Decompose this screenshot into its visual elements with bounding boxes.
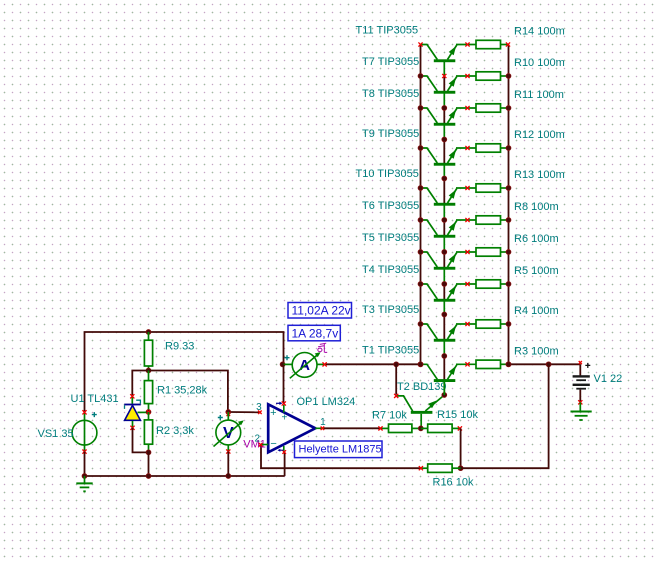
resistor R12 100m: [476, 144, 508, 152]
ammeter AM1: [283, 352, 326, 378]
label T9 TIP3055: [362, 128, 419, 140]
resistor R3 100m: [476, 360, 508, 368]
wire voltmeter plus node to op-amp pin3: [228, 411, 260, 413]
junction right rail row 9: [506, 322, 511, 327]
label T2 BD139: [397, 381, 447, 393]
svg-text:OP1 LM324: OP1 LM324: [297, 396, 356, 408]
label R14 100m: [514, 26, 565, 38]
pin marker op-amp noninverting: [258, 411, 262, 415]
wire ammeter node to op-amp V+: [283, 364, 285, 403]
svg-text:R12 100m: R12 100m: [514, 129, 565, 141]
junction R3 right: [506, 362, 511, 367]
junction left rail row 6: [418, 218, 423, 223]
pin marker emitter T10: [465, 186, 469, 190]
label op-amp V+ arrow: [276, 402, 282, 405]
svg-text:T5 TIP3055: T5 TIP3055: [362, 232, 419, 244]
junction left rail row 4: [418, 146, 423, 151]
junction R16 right: [458, 466, 463, 471]
resistor R13 100m: [476, 184, 508, 192]
pin marker R15 right: [458, 426, 462, 430]
junction feedback riser: [546, 362, 551, 367]
wire R3 to battery: [508, 363, 580, 365]
svg-text:T10 TIP3055: T10 TIP3055: [356, 168, 419, 180]
label R4 100m: [514, 305, 559, 317]
svg-text:T7 TIP3055: T7 TIP3055: [362, 56, 419, 68]
label pin 3: [256, 402, 262, 413]
pin marker op-amp inverting: [259, 443, 263, 447]
label voltmeter plus sign: [218, 415, 223, 420]
svg-text:R16 10k: R16 10k: [433, 477, 474, 489]
label OP1 LM324: [297, 396, 356, 408]
wire feedback riser to battery node: [461, 364, 549, 468]
pin marker R16 left: [419, 466, 423, 470]
svg-text:T11 TIP3055: T11 TIP3055: [356, 25, 419, 37]
node T1 base / T2 emitter: [442, 393, 447, 398]
junction R1 R2 divider: [146, 410, 151, 415]
svg-text:T4 TIP3055: T4 TIP3055: [362, 264, 419, 276]
label R8 100m: [514, 201, 559, 213]
junction base line: [442, 312, 447, 317]
label current arrow annotation: [318, 343, 327, 352]
junction R9 top: [146, 330, 151, 335]
label R16 10k: [433, 477, 474, 489]
svg-text:R9 33: R9 33: [165, 341, 194, 353]
wire left collector rail: [420, 45, 422, 365]
label VM1: [243, 439, 266, 451]
pin marker emitter T5: [465, 250, 469, 254]
label T3 TIP3055: [362, 304, 419, 316]
label ammeter plus sign: [285, 355, 290, 360]
pin marker voltmeter bottom: [226, 449, 230, 453]
svg-text:11,02A 22v: 11,02A 22v: [292, 304, 351, 318]
wire VS1 to ground: [84, 452, 86, 476]
resistor R7 10k: [382, 424, 421, 432]
junction right rail row 6: [506, 218, 511, 223]
pin marker emitter T6: [465, 218, 469, 222]
junction T1 collector: [418, 362, 423, 367]
junction right rail row 10: [506, 362, 511, 367]
pin marker VS1 minus: [82, 450, 86, 454]
pin marker battery bottom: [578, 400, 582, 404]
pin marker resistor rail top: [506, 42, 510, 46]
resistor R15 10k: [421, 424, 461, 432]
resistor R4 100m: [476, 320, 508, 328]
resistor R11 100m: [476, 104, 508, 112]
label box 1A 28,7v: [288, 325, 340, 341]
transistor T8 TIP3055: [421, 108, 476, 126]
pin marker collector rail top: [418, 42, 422, 46]
junction base line: [442, 354, 447, 359]
junction left rail row 7: [418, 250, 423, 255]
transistor T3 TIP3055: [421, 324, 476, 342]
junction base line: [442, 106, 447, 111]
ground V1: [571, 402, 592, 420]
pin marker op-amp out: [321, 427, 325, 431]
resistor R6 100m: [476, 248, 508, 256]
wire ammeter output to T1 node: [326, 363, 421, 365]
resistor R9 33: [144, 332, 152, 371]
label T6 TIP3055: [362, 200, 419, 212]
pin marker emitter T3: [465, 322, 469, 326]
svg-text:R10 100m: R10 100m: [514, 57, 565, 69]
label T7 TIP3055: [362, 56, 419, 68]
svg-text:1: 1: [320, 417, 326, 428]
svg-text:Helyette LM1875: Helyette LM1875: [299, 444, 382, 456]
pin marker TL431 anode: [130, 426, 134, 430]
junction right rail row 8: [506, 282, 511, 287]
svg-text:V1 22: V1 22: [594, 373, 623, 385]
junction voltmeter top: [226, 410, 231, 417]
label VS1 plus sign: [92, 412, 97, 417]
resistor R1 35,28k: [144, 371, 152, 413]
voltmeter VM1: [214, 412, 244, 452]
svg-text:−: −: [270, 438, 276, 450]
label R11 100m: [514, 89, 564, 101]
wire ground rail to op-amp V-: [284, 453, 286, 476]
junction right rail row 4: [506, 146, 511, 151]
label R10 100m: [514, 57, 565, 69]
svg-text:+: +: [270, 407, 276, 419]
svg-text:T3 TIP3055: T3 TIP3055: [362, 304, 419, 316]
transistor T10 TIP3055: [421, 188, 476, 206]
svg-text:R15 10k: R15 10k: [437, 409, 478, 421]
pin marker base T11: [442, 74, 446, 78]
transistor T9 TIP3055: [421, 148, 476, 166]
junction R7 R15 T2 base: [418, 426, 423, 431]
transistor T5 TIP3055: [421, 252, 476, 270]
junction ammeter input: [280, 362, 285, 367]
label R7 10k: [372, 409, 407, 421]
pin marker emitter T11: [465, 42, 469, 46]
junction left rail row 9: [418, 322, 423, 327]
battery V1 22: [573, 364, 590, 402]
wire reference node: [132, 371, 148, 396]
label T1 TIP3055: [362, 344, 419, 356]
svg-text:VS1 35: VS1 35: [38, 428, 74, 440]
resistor R16 10k: [421, 464, 461, 472]
junction base line: [442, 176, 447, 181]
junction left rail row 2: [418, 74, 423, 79]
label R3 100m: [514, 345, 559, 357]
wire R15 to R16 node: [460, 428, 462, 468]
svg-text:T1 TIP3055: T1 TIP3055: [362, 344, 419, 356]
junction R9 bottom: [146, 368, 151, 373]
junction right rail row 2: [506, 74, 511, 79]
label T11 TIP3055: [356, 25, 419, 37]
label R15 10k: [437, 409, 478, 421]
voltage source VS1 35: [72, 412, 97, 451]
svg-text:2: 2: [255, 434, 261, 445]
op-amp OP1 LM324: [261, 404, 325, 452]
junction right rail row 5: [506, 186, 511, 191]
svg-text:T8 TIP3055: T8 TIP3055: [362, 88, 419, 100]
label pin 2: [255, 434, 261, 445]
wire right emitter rail: [508, 45, 510, 365]
wire inverting input feedback: [261, 445, 421, 469]
wire TL431 anode to R2 bottom: [133, 428, 147, 453]
junction ground voltmeter: [226, 474, 231, 479]
junction ground divider: [146, 474, 151, 479]
pin marker TL431 cathode: [130, 394, 134, 398]
label VS1 35: [38, 428, 74, 440]
pin marker T2 collector: [394, 394, 398, 398]
svg-text:R14 100m: R14 100m: [514, 26, 565, 38]
transistor T1 TIP3055: [421, 364, 476, 382]
svg-text:R13 100m: R13 100m: [514, 169, 565, 181]
label op-amp V- arrow: [278, 449, 284, 452]
svg-text:R11 100m: R11 100m: [514, 89, 564, 101]
pin marker ammeter output: [323, 362, 327, 366]
label box 11,02A 22v: [288, 303, 352, 319]
resistor R14 100m: [476, 40, 508, 48]
svg-text:R8 100m: R8 100m: [514, 201, 559, 213]
pin marker emitter T9: [465, 146, 469, 150]
svg-text:T2 BD139: T2 BD139: [397, 381, 447, 393]
wire top rail VS1 to ammeter: [85, 332, 284, 411]
transistor T4 TIP3055: [421, 284, 476, 302]
op-amp U1 TL431: [124, 396, 146, 428]
transistor T7 TIP3055: [421, 76, 476, 94]
junction left rail row 8: [418, 282, 423, 287]
junction base line: [442, 250, 447, 255]
svg-text:R3 100m: R3 100m: [514, 345, 559, 357]
wire op-amp output to R7: [324, 427, 382, 429]
pin marker R7 left: [378, 426, 382, 430]
junction base line: [442, 218, 447, 223]
junction base line: [442, 282, 447, 287]
label R5 100m: [514, 265, 559, 277]
resistor R5 100m: [476, 280, 508, 288]
wire reference to voltmeter and op-amp: [149, 371, 228, 413]
transistor T11 TIP3055: [421, 45, 476, 63]
wire T2 collector riser: [395, 364, 397, 394]
label box Helyette LM1875: [295, 441, 383, 458]
resistor R10 100m: [476, 72, 508, 80]
label T10 TIP3055: [356, 168, 419, 180]
junction T2 collector feed: [394, 362, 399, 367]
junction right rail row 7: [506, 250, 511, 255]
label T5 TIP3055: [362, 232, 419, 244]
pin marker emitter T7: [465, 74, 469, 78]
transistor T2 BD139: [396, 396, 443, 427]
label T4 TIP3055: [362, 264, 419, 276]
svg-text:R2 3,3k: R2 3,3k: [156, 425, 194, 437]
ground symbol: [76, 476, 92, 491]
pin marker emitter T4: [465, 282, 469, 286]
pin marker VS1 plus: [82, 410, 86, 414]
label T8 TIP3055: [362, 88, 419, 100]
transistor T6 TIP3055: [421, 220, 476, 238]
svg-text:R4 100m: R4 100m: [514, 305, 559, 317]
junction R2 bottom: [146, 450, 151, 455]
junction ground VS1: [82, 474, 87, 479]
label R6 100m: [514, 233, 559, 245]
label R2 3,3k: [156, 425, 194, 437]
resistor R8 100m: [476, 216, 508, 224]
junction left rail row 3: [418, 106, 423, 111]
svg-text:3: 3: [256, 402, 262, 413]
wire T1 base to T2 emitter: [443, 380, 445, 396]
label R1 35,28k: [157, 385, 208, 397]
junction left rail row 5: [418, 186, 423, 191]
label pin 1: [320, 417, 326, 428]
svg-text:R6 100m: R6 100m: [514, 233, 559, 245]
label V1 22: [594, 373, 623, 385]
svg-text:R7 10k: R7 10k: [372, 409, 407, 421]
resistor R2 3,3k: [144, 412, 152, 452]
junction right rail row 3: [506, 106, 511, 111]
pin marker op-amp V-: [282, 450, 286, 454]
pin marker battery top: [579, 361, 582, 364]
label R13 100m: [514, 169, 565, 181]
label battery plus: [585, 363, 590, 368]
svg-text:U1 TL431: U1 TL431: [71, 393, 119, 405]
wire common base line: [443, 61, 445, 396]
pin marker op-amp V+: [282, 401, 286, 405]
svg-text:R1 35,28k: R1 35,28k: [157, 385, 208, 397]
wire voltmeter to ground rail: [227, 452, 229, 477]
wire R2 bottom to ground rail: [148, 452, 150, 476]
svg-text:+: +: [281, 412, 287, 423]
label R12 100m: [514, 129, 565, 141]
label R9 33: [165, 341, 194, 353]
junction base line: [442, 137, 447, 142]
svg-text:R5 100m: R5 100m: [514, 265, 559, 277]
svg-text:1A 28,7v: 1A 28,7v: [292, 326, 339, 340]
label U1 TL431: [71, 393, 119, 405]
svg-text:T9 TIP3055: T9 TIP3055: [362, 128, 419, 140]
pin marker emitter T1: [465, 362, 469, 366]
svg-text:T6 TIP3055: T6 TIP3055: [362, 200, 419, 212]
junction left rail row 10: [418, 362, 423, 367]
pin marker emitter T8: [465, 106, 469, 110]
wire bottom ground rail: [85, 475, 285, 477]
